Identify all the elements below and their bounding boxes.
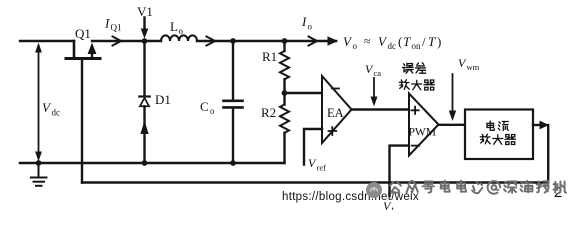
node Co tap junction dot [230,38,236,44]
PWM plus sign [412,107,419,114]
svg-text:o: o [179,26,184,36]
svg-text:dc: dc [388,41,397,51]
svg-text:T: T [403,34,411,49]
wm char 电 [441,181,450,192]
current arrow I_Q1 [113,37,122,46]
svg-text:wm: wm [467,62,480,72]
svg-text:(: ( [398,34,402,49]
svg-text:ref: ref [317,163,327,173]
char 流 [498,122,508,131]
watermark logo circle [366,182,382,198]
wm char 心 [472,182,482,193]
wire top rail from Q1 source to inductor [92,40,161,42]
wire Q1 gate line down to lower feedback rail [81,59,83,183]
inductor Lo coil [161,35,197,41]
output arrowhead to Vo [328,36,339,46]
wm char 海 [520,181,532,192]
svg-text:T: T [428,34,436,49]
Vca arrow [371,78,378,107]
transistor Q1 [66,41,100,59]
svg-text:ca: ca [374,68,382,78]
svg-text:V: V [343,34,353,49]
wm char 电 [457,181,466,192]
node R1 tap junction dot [282,38,288,44]
wm char 公 [390,182,401,193]
wm char 众 [407,181,418,193]
PWM minus sign [412,145,419,147]
svg-text:dc: dc [52,108,61,118]
svg-text:on: on [412,41,422,51]
Vwm arrow [449,74,456,121]
svg-text:V: V [42,100,52,115]
op-amp EA [322,76,352,143]
diode D1 [139,41,149,163]
char 器 [505,135,516,145]
svg-text:Q1: Q1 [111,23,122,33]
resistor R2 [280,105,289,164]
node Co ground junction dot [230,160,236,166]
char 放 [399,80,409,90]
V1 input arrow [141,18,149,39]
svg-text:): ) [437,34,441,49]
formula Vo = Vdc(Ton/T) [343,34,441,51]
char 误 [403,64,414,74]
svg-text:EA: EA [327,106,344,120]
wire arrow after inductor [207,37,216,46]
label 误差放大器 (error amplifier, drawn glyphs) [399,63,434,90]
node V1 junction dot [142,38,148,44]
wire down from current amp output [547,125,549,183]
Vdc double arrow line [35,43,42,162]
svg-text:PWM: PWM [409,127,436,139]
wire EA inverting input [285,92,323,94]
wm char @ [488,181,501,194]
wm char 扬 [537,181,549,192]
EA minus sign [332,88,339,90]
svg-text:t: t [392,204,395,210]
svg-text:D1: D1 [155,92,171,107]
EA plus sign [329,127,337,135]
node Vdc ground dot [36,160,42,166]
capacitor Co [224,41,243,163]
svg-text:o: o [210,106,215,116]
svg-text:V: V [378,34,388,49]
watermark chinese text (drawn glyphs) [390,181,566,194]
wire EA output [352,108,410,110]
ground rail [20,162,285,164]
wire top rail left segment [20,40,74,42]
resistor R1 [280,41,289,105]
wire PWM inverting input to Vt [390,146,410,196]
char 放 [480,134,490,144]
wm char 帆 [554,182,567,193]
svg-text:V1: V1 [137,4,153,19]
svg-text:C: C [200,99,209,114]
svg-text:I: I [104,16,110,31]
wire box output with arrowhead [533,124,540,126]
ground symbol [31,163,47,186]
svg-text:/: / [422,34,426,49]
svg-text:L: L [170,19,178,34]
svg-text:o: o [308,22,313,32]
wire top rail after inductor [197,40,336,42]
label 电流 / 放大器 (current amplifier box text, drawn glyphs) [480,121,515,145]
svg-text:o: o [353,41,358,51]
svg-text:Q1: Q1 [75,26,91,41]
svg-text:≈: ≈ [364,34,371,48]
wire EA noninverting input to Vref [304,129,322,165]
wire lower feedback rail [82,181,548,183]
char 器 [424,80,435,90]
comparator PWM [409,94,439,156]
svg-text:I: I [301,14,307,29]
svg-text:R1: R1 [262,49,277,64]
wire PWM output [439,124,466,126]
char 电 [487,121,494,130]
current arrow I_o [309,37,318,46]
char 大 [493,135,503,145]
node D1 ground junction dot [142,160,148,166]
current amplifier box [465,110,533,160]
char 大 [412,80,422,90]
wm char 号 [423,182,434,193]
char 差 [416,63,426,73]
svg-text:R2: R2 [261,105,276,120]
node divider junction dot [282,90,288,96]
wm char 深 [504,182,516,193]
